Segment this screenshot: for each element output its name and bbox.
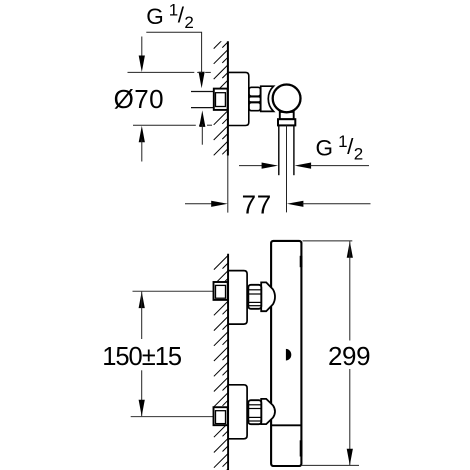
supply centre line (lower union) <box>131 416 214 418</box>
outlet nut <box>278 119 295 125</box>
dia70 lower out-arrow <box>139 126 145 143</box>
dia70 dimension: upper out-arrow <box>141 37 143 59</box>
299 dimension <box>303 240 353 242</box>
dia70 top extension line <box>128 71 195 73</box>
wall nipple square (lower union) <box>214 407 228 425</box>
svg-text:G: G <box>146 4 164 29</box>
coupling nut between escutcheon and valve (top view) <box>249 87 261 110</box>
supply pipe through wall (top view) <box>191 92 214 108</box>
escutcheon (lower union) <box>228 385 247 439</box>
arrow to wall union <box>199 72 205 89</box>
svg-text:Ø70: Ø70 <box>114 84 164 114</box>
coupling nut (upper union) <box>248 285 261 309</box>
svg-text:2: 2 <box>184 13 193 32</box>
supply centre line (upper union) <box>133 290 214 292</box>
outlet neck below knob <box>280 112 294 119</box>
G1/2 lower-right dimension arrow below union <box>199 110 205 127</box>
wall face line (upper, bold) <box>227 41 229 155</box>
wall hatching (upper wall) <box>214 34 228 170</box>
body right edge accents <box>300 256 303 267</box>
77 dimension <box>185 203 212 205</box>
pipe G1/2 dimension arrows <box>239 165 263 167</box>
union nut at wall (top view) <box>214 89 228 110</box>
leader G1/2 top <box>146 32 201 75</box>
svg-text:2: 2 <box>354 145 363 164</box>
coupling nut (lower union) <box>248 400 261 424</box>
wall nipple square (upper union) <box>214 282 228 300</box>
mixer body (front view) <box>271 241 301 466</box>
adapter cone (upper union) <box>261 282 275 311</box>
svg-text:150±15: 150±15 <box>102 343 182 371</box>
safestop button half-disc <box>286 349 291 361</box>
wall face extension line (thin, for 77 dim) <box>227 156 229 213</box>
valve body (top view) <box>261 86 274 111</box>
pipe centre line / extension <box>286 125 288 212</box>
body bottom section divider <box>271 424 301 426</box>
svg-text:G: G <box>316 136 334 161</box>
svg-text:77: 77 <box>242 190 272 220</box>
control knob circle (top view) <box>273 85 301 113</box>
dia70 bottom extension line <box>133 124 196 126</box>
adapter cone (lower union) <box>261 399 275 424</box>
label G 1/2 (pipe) <box>316 132 364 164</box>
escutcheon (upper union) <box>228 271 247 325</box>
wall hatching (lower wall) <box>214 255 228 470</box>
svg-text:299: 299 <box>328 341 370 371</box>
shower outlet pipe (top view) <box>278 125 280 175</box>
150 +/- 15 dimension <box>139 292 145 309</box>
wall face line (lower, bold) <box>227 254 229 470</box>
escutcheon (top view) <box>228 72 249 125</box>
label G 1/2 (top) <box>146 0 194 32</box>
